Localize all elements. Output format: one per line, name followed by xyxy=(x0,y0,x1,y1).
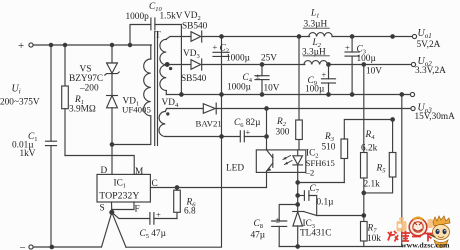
IC2 optocoupler SFH615-2 box xyxy=(256,149,335,178)
terminal Uo1 xyxy=(412,28,440,50)
resistor R7 10k xyxy=(361,222,382,247)
svg-text:T: T xyxy=(155,31,161,41)
node C3 bottom xyxy=(350,93,354,97)
zener VS BZY97C xyxy=(69,45,119,95)
node C8 tap xyxy=(296,203,300,207)
svg-text:www.dzsc.com: www.dzsc.com xyxy=(401,240,450,249)
diode VD3 SB540 xyxy=(181,49,207,84)
wire primary bottom rail xyxy=(33,246,101,248)
node C7 xyxy=(296,194,300,198)
node R5 top xyxy=(391,35,395,39)
svg-text:F: F xyxy=(135,205,140,215)
wire M pin xyxy=(65,156,134,175)
svg-text:C6 82µ: C6 82µ xyxy=(234,118,261,129)
opto LED xyxy=(293,150,303,173)
svg-text:+: + xyxy=(345,43,350,53)
wire bottom rail B xyxy=(126,37,222,248)
svg-text:25V: 25V xyxy=(261,54,277,64)
node C3 top xyxy=(350,35,354,39)
phase dot winding2 xyxy=(167,113,169,115)
inductor L1 3.3uH xyxy=(303,9,332,37)
capacitor C5 47u xyxy=(140,210,178,241)
capacitor C6 82u xyxy=(222,118,267,142)
transformer T core xyxy=(155,31,161,146)
capacitor C4 1000u 10V xyxy=(227,65,280,95)
svg-text:510: 510 xyxy=(322,143,336,153)
svg-text:15V,30mA: 15V,30mA xyxy=(415,112,456,122)
wire collector drop xyxy=(266,109,268,150)
node C4 top xyxy=(260,63,264,67)
transformer primary winding xyxy=(144,45,151,116)
node C10 ground xyxy=(180,93,184,97)
svg-text:47µ: 47µ xyxy=(251,231,266,241)
svg-text:5V,2A: 5V,2A xyxy=(417,40,441,50)
svg-text:+: + xyxy=(213,42,218,52)
node R4 top xyxy=(362,63,366,67)
IC3 TL431C xyxy=(293,212,332,247)
svg-text:200~375V: 200~375V xyxy=(0,98,40,108)
wire R3 row xyxy=(298,182,345,184)
svg-text:10V: 10V xyxy=(264,84,280,94)
resistor R3 510 xyxy=(322,120,393,183)
terminal GND xyxy=(410,92,414,96)
capacitor C1 xyxy=(12,45,57,247)
inductor L2 3.3uH xyxy=(302,38,329,65)
svg-text:300: 300 xyxy=(276,128,290,138)
svg-text:S: S xyxy=(100,204,105,214)
node C1/+rail xyxy=(49,43,52,46)
node C9 bottom xyxy=(327,93,331,97)
svg-text:100µ: 100µ xyxy=(305,85,325,95)
diode VD2 SB540 xyxy=(182,11,208,42)
wire 5V rail xyxy=(170,36,412,38)
wire ground drop right xyxy=(401,95,403,247)
svg-text:–200: –200 xyxy=(79,84,99,94)
node TL431 bottom xyxy=(296,245,300,249)
svg-text:–: – xyxy=(19,242,26,250)
svg-text:±: ± xyxy=(276,215,281,225)
watermark text weiku xyxy=(388,231,433,242)
svg-text:VS: VS xyxy=(80,65,92,75)
svg-text:1000p: 1000p xyxy=(126,12,150,22)
node R3 row xyxy=(296,181,300,185)
svg-text:SB540: SB540 xyxy=(182,22,208,32)
terminal Uo3 xyxy=(411,103,455,123)
svg-text:3.9MΩ: 3.9MΩ xyxy=(69,105,96,115)
svg-text:3.3V,2A: 3.3V,2A xyxy=(415,66,446,76)
wire 3.3V rail xyxy=(202,64,412,66)
svg-text:–2: –2 xyxy=(305,167,315,177)
node drain junction xyxy=(110,143,114,147)
wire C pin row xyxy=(150,187,266,189)
wire drain row to primary bottom xyxy=(112,116,151,145)
node C9 top xyxy=(327,63,331,67)
svg-text:6.8: 6.8 xyxy=(184,207,196,217)
svg-text:1kV: 1kV xyxy=(20,149,36,159)
svg-text:10V: 10V xyxy=(366,67,382,77)
input - terminal xyxy=(19,242,33,250)
node C4 bottom xyxy=(260,93,264,97)
transformer secondary winding 1 xyxy=(160,37,170,95)
wire S to C5 xyxy=(112,212,150,218)
resistor R5 2.1k xyxy=(364,120,396,190)
capacitor C2 1000u 25V xyxy=(213,42,278,64)
capacitor C10 1000p xyxy=(126,2,183,95)
svg-text:BAV21: BAV21 xyxy=(196,119,222,129)
node R2 top xyxy=(297,35,301,39)
input + terminal xyxy=(18,40,51,52)
svg-text:2.1k: 2.1k xyxy=(364,180,381,190)
node R6/C row xyxy=(175,186,179,190)
svg-text:±: ± xyxy=(256,71,261,81)
svg-text:6.2k: 6.2k xyxy=(361,144,378,154)
svg-text:LED: LED xyxy=(226,164,244,174)
svg-text:+: + xyxy=(246,127,251,137)
wire tap to VD3 xyxy=(167,64,191,66)
capacitor C8 47u xyxy=(251,205,298,247)
resistor R6 6.8 xyxy=(174,188,196,219)
svg-text:M: M xyxy=(135,167,143,177)
wire D pin stub xyxy=(111,145,113,175)
node divider ref xyxy=(362,191,366,195)
node C7 ref xyxy=(362,214,366,218)
node R3 top row / R5 column xyxy=(391,118,395,122)
svg-text:0.1µ: 0.1µ xyxy=(317,198,335,208)
transformer secondary winding 2 (bias) xyxy=(159,109,221,137)
node C6/gnd column xyxy=(220,135,224,139)
IC1 TOP232Y box xyxy=(97,174,150,202)
node opto collector xyxy=(265,107,269,111)
phase dot winding1 xyxy=(170,67,172,69)
wire S to right rail xyxy=(112,212,126,247)
svg-text:1000µ: 1000µ xyxy=(227,83,252,93)
capacitor C3 100u 10V xyxy=(345,37,382,95)
wire F pin xyxy=(112,202,135,210)
svg-text:100µ: 100µ xyxy=(357,54,377,64)
wire S pin xyxy=(111,202,113,212)
node secondary tap xyxy=(165,63,169,67)
wire ref row to R5 xyxy=(364,177,393,193)
svg-text:BZY97C: BZY97C xyxy=(69,74,103,84)
wire ref down xyxy=(363,193,365,222)
opto phototransistor xyxy=(267,150,273,188)
svg-text:+: + xyxy=(322,70,327,80)
node gnd drop xyxy=(400,93,404,97)
wire secondary ground rail xyxy=(166,94,410,96)
svg-text:SB540: SB540 xyxy=(181,74,207,84)
node C2 top xyxy=(220,35,224,39)
opto light arrows xyxy=(283,156,292,165)
capacitor C7 0.1u xyxy=(298,184,364,216)
svg-text:+: + xyxy=(156,210,161,220)
svg-text:1.5kV: 1.5kV xyxy=(160,12,183,22)
resistor R1 3.9M xyxy=(62,45,96,156)
svg-text:TL431C: TL431C xyxy=(300,229,332,239)
node S junction xyxy=(110,210,114,214)
svg-text:1000µ: 1000µ xyxy=(226,54,251,64)
resistor R2 300 xyxy=(276,37,303,150)
wire +rail xyxy=(51,44,151,46)
node R1/+rail xyxy=(63,43,66,46)
svg-text:UF4005: UF4005 xyxy=(122,105,151,115)
watermark faint orange text xyxy=(397,218,434,232)
diode VD4 BAV21 xyxy=(203,103,216,114)
node VS/+rail xyxy=(110,43,113,46)
node C6/collector xyxy=(265,135,269,139)
watermark mascot xyxy=(427,216,450,248)
terminal Uo2 xyxy=(411,56,446,76)
svg-text:+: + xyxy=(18,40,24,52)
watermark red badge xyxy=(409,218,427,236)
wire S to left rail xyxy=(102,212,112,247)
diode VD1 UF4005 xyxy=(107,96,152,145)
node C2 bottom xyxy=(220,93,224,97)
wire 15V rail xyxy=(216,108,411,110)
capacitor C9 100u xyxy=(305,65,336,95)
svg-text:D: D xyxy=(101,166,108,176)
node C1/bottom rail xyxy=(50,245,54,249)
wire LED cathode column xyxy=(297,172,299,211)
resistor R4 6.2k xyxy=(361,65,378,193)
watermark xyxy=(388,216,450,249)
node C10/+rail xyxy=(128,43,131,46)
svg-text:TOP232Y: TOP232Y xyxy=(99,190,139,201)
svg-text:C5 47µ: C5 47µ xyxy=(140,229,167,240)
wire TL431 bottom rail xyxy=(279,246,402,248)
svg-text:10k: 10k xyxy=(367,234,381,244)
